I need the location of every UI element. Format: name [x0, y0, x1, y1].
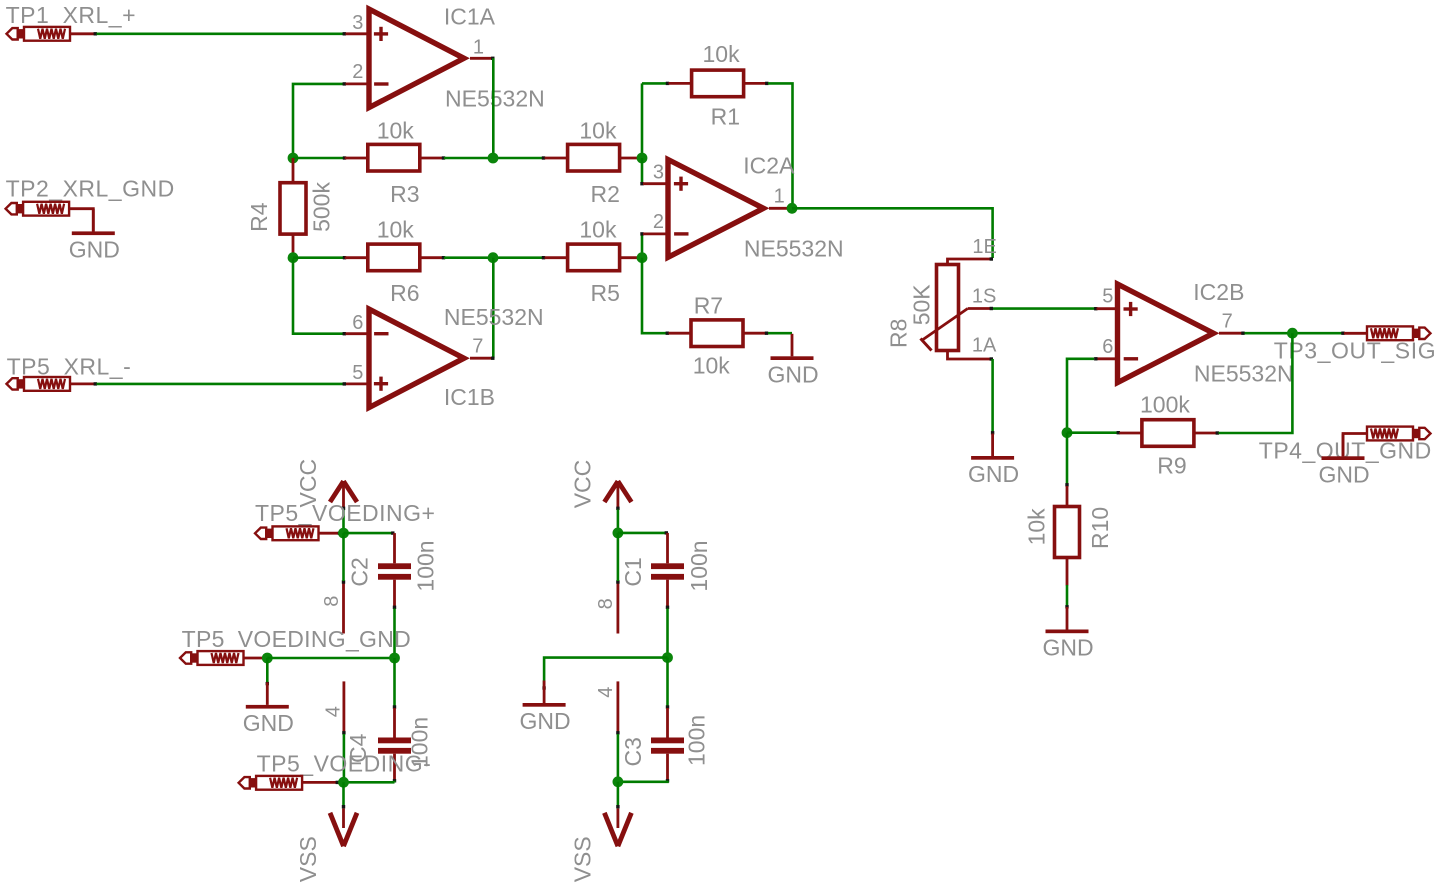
test pin TP5 VOEDING GND: [180, 651, 263, 665]
pin end tick IC1B pin 7: [491, 357, 494, 360]
test pin TP5 VOEDING+: [255, 526, 338, 540]
junction VCC left: [338, 528, 349, 539]
pin end tick IC2A pin 2: [640, 232, 643, 235]
value label R4 500k: [309, 182, 335, 232]
svg-text:TP5_VOEDING+: TP5_VOEDING+: [255, 500, 435, 526]
wire bottom row left group: [339, 781, 395, 784]
pin end tick R7 right: [765, 332, 768, 335]
wire R7 to ground: [768, 332, 792, 335]
svg-text:C1: C1: [620, 557, 646, 586]
resistor R9: [1119, 420, 1216, 447]
value label NE5532N (IC2B): [1194, 361, 1294, 387]
pin end tick C1 top: [665, 531, 668, 534]
svg-text:10k: 10k: [703, 41, 741, 67]
test pin TP2: [6, 202, 94, 232]
wire junction to VSS mid: [617, 782, 620, 806]
value label C4 100n: [407, 717, 433, 768]
svg-text:GND: GND: [1318, 461, 1369, 487]
wire pin 4 to bottom row left: [343, 734, 346, 782]
pin end tick IC1B pin 6: [343, 332, 346, 335]
value label R1 10k: [703, 41, 741, 67]
wire R8 wiper to IC2B pin 5: [993, 307, 1095, 310]
pin end tick IC2B pin 6: [1094, 357, 1097, 360]
pin 2 label IC2A: [653, 211, 664, 233]
name label C3: [620, 737, 646, 766]
op-amp IC2A: [643, 160, 791, 258]
junction VCC mid: [613, 528, 624, 539]
svg-text:7: 7: [472, 336, 483, 358]
svg-text:C3: C3: [620, 737, 646, 766]
wire IC1A pin 2 net: [293, 84, 344, 157]
resistor R4: [280, 158, 306, 258]
test pin TP4: [1343, 427, 1431, 457]
junction IC2A pin 3 node: [637, 153, 648, 164]
value label NE5532N (IC1A): [445, 86, 545, 112]
pin end tick pin 4 left: [342, 731, 345, 734]
pin end tick TP1: [94, 32, 97, 35]
pin end tick VCC left: [342, 507, 345, 510]
name label R9: [1157, 453, 1186, 479]
wire IC1A output down: [492, 58, 495, 158]
svg-text:10k: 10k: [579, 217, 617, 243]
pin end tick R1 right: [765, 82, 768, 85]
resistor R3: [345, 144, 443, 171]
pin 1 label IC2A: [774, 186, 785, 208]
pin end tick ground left: [266, 682, 269, 685]
junction row A left: [288, 153, 299, 164]
wire R9 right up to output: [1219, 333, 1293, 433]
svg-text:GND: GND: [69, 236, 120, 262]
pin end tick C3 bottom: [666, 779, 669, 782]
test pin TP5 VOEDING-: [239, 776, 337, 790]
pin end tick R7 left: [666, 332, 669, 335]
svg-text:5: 5: [352, 362, 363, 384]
value label NE5532N (IC1B): [444, 304, 544, 330]
pin end tick R9 right: [1216, 431, 1219, 434]
pin end tick IC2B pin 7: [1241, 332, 1244, 335]
pin end tick R10 top: [1065, 483, 1068, 486]
svg-text:GND: GND: [767, 361, 818, 387]
wire TP5 to IC1B pin 5: [97, 383, 345, 386]
wire IC2B output: [1245, 332, 1343, 335]
name label VSS mid: [569, 836, 595, 882]
net label TP4_OUT_GND: [1259, 438, 1432, 464]
name label R4: [246, 202, 272, 232]
pin end tick IC1A pin 2: [343, 82, 346, 85]
svg-text:GND: GND: [968, 461, 1019, 487]
wire R10 to ground: [1066, 585, 1069, 606]
svg-text:10k: 10k: [377, 217, 415, 243]
power symbol VSS mid: [604, 809, 631, 847]
power pin 8 left: [342, 584, 345, 634]
svg-text:VSS: VSS: [569, 836, 595, 882]
junction mid row jack left: [262, 653, 273, 664]
name label R10: [1087, 507, 1113, 549]
pin end tick R8 1A: [990, 357, 993, 360]
wire R1 right to IC2A output: [768, 83, 793, 207]
name label R6: [390, 280, 419, 306]
pin 6 label IC1B: [352, 312, 363, 334]
pin end tick TP5 VOEDING-: [336, 781, 339, 784]
capacitor C1: [651, 533, 684, 606]
wire row B left: [293, 256, 344, 259]
pin 8 label left: [321, 596, 343, 607]
wire IC1B pin 6 net: [293, 259, 344, 334]
resistor R10: [1055, 486, 1080, 586]
svg-text:VSS: VSS: [295, 836, 321, 882]
wire junction to VSS left: [342, 782, 345, 806]
junction bottom row mid: [613, 776, 624, 787]
svg-text:TP5_XRL_-: TP5_XRL_-: [7, 354, 132, 380]
pin end tick IC1B pin 5: [343, 382, 346, 385]
svg-text:IC2B: IC2B: [1193, 279, 1244, 305]
wire C2 to mid row left: [393, 609, 396, 659]
power pin 4 mid: [617, 681, 620, 732]
wire C1 to mid row: [666, 609, 669, 658]
svg-text:1E: 1E: [972, 236, 996, 258]
wire R8 1A to ground: [991, 359, 994, 433]
name label R7: [694, 293, 723, 319]
svg-text:100n: 100n: [686, 540, 712, 591]
pin end tick VSS mid: [616, 805, 619, 808]
svg-text:6: 6: [1102, 336, 1113, 358]
svg-text:R3: R3: [390, 181, 419, 207]
pin 7 label IC1B: [472, 336, 483, 358]
pin end tick TP3: [1341, 332, 1344, 335]
wire R3 to R2: [444, 157, 543, 160]
svg-text:2: 2: [352, 61, 363, 83]
wire mid row to ground mid: [544, 658, 667, 688]
name label R1: [711, 104, 740, 130]
wire VCC junction to pin 8 mid: [617, 533, 620, 581]
svg-text:1: 1: [774, 186, 785, 208]
value label R10 10k: [1024, 508, 1050, 546]
svg-text:R7: R7: [694, 293, 723, 319]
value label C2 100n: [413, 540, 439, 591]
svg-text:C2: C2: [347, 557, 373, 586]
pin end tick R8 ground: [991, 431, 994, 434]
op-amp IC1B: [346, 309, 493, 408]
name label R5: [591, 280, 620, 306]
svg-text:R5: R5: [591, 280, 620, 306]
junction mid row mid group: [662, 652, 673, 663]
value label R5 10k: [579, 217, 617, 243]
power symbol VCC mid: [604, 481, 631, 507]
svg-text:1: 1: [473, 36, 484, 58]
value label C1 100n: [686, 540, 712, 591]
ground symbol R10: [1042, 607, 1093, 661]
net label TP5_XRL_-: [7, 354, 132, 380]
junction mid row cap left: [389, 653, 400, 664]
resistor R2: [545, 144, 641, 171]
pin 4 label mid: [595, 687, 617, 698]
svg-text:GND: GND: [243, 710, 294, 736]
svg-text:10k: 10k: [377, 117, 415, 143]
svg-text:R9: R9: [1157, 453, 1186, 479]
name label R3: [390, 181, 419, 207]
net label TP5_VOEDING_GND: [182, 626, 411, 652]
junction row B left: [288, 252, 299, 263]
power symbol VCC left: [330, 481, 357, 507]
wire junction to C2: [344, 532, 393, 535]
pin end tick ground mid: [542, 686, 545, 689]
wire R1 branch down: [641, 83, 644, 158]
value label NE5532N (IC2A): [744, 236, 844, 262]
pin end tick C2 bottom: [393, 606, 396, 609]
wire R9 left: [1067, 431, 1118, 434]
svg-text:VCC: VCC: [569, 460, 595, 509]
wire C4 corner: [393, 781, 396, 783]
svg-text:10k: 10k: [693, 353, 731, 379]
wire mid row left group: [267, 657, 394, 660]
pin end tick IC1A pin 1: [491, 57, 494, 60]
svg-text:100n: 100n: [684, 715, 710, 766]
svg-text:IC1A: IC1A: [444, 3, 496, 29]
wire node to IC2A pin 2: [641, 234, 644, 258]
name label IC1B: [444, 384, 495, 410]
pin end tick pin 8 mid: [616, 580, 619, 583]
capacitor C3: [651, 708, 684, 780]
svg-text:GND: GND: [520, 708, 571, 734]
svg-text:8: 8: [321, 596, 343, 607]
svg-text:R2: R2: [591, 181, 620, 207]
svg-text:NE5532N: NE5532N: [444, 304, 544, 330]
wire R6 to R5: [444, 256, 543, 259]
wire IC2B pin 6 to R9 node: [1067, 359, 1094, 433]
pin end tick IC1A pin 3: [343, 32, 346, 35]
svg-text:NE5532N: NE5532N: [445, 86, 545, 112]
pin end tick R9 left: [1117, 431, 1120, 434]
pin 8 label mid: [595, 598, 617, 609]
pin 3 label IC1A: [352, 12, 363, 34]
pin end tick C3 top: [666, 705, 669, 708]
name label IC1A: [444, 3, 496, 29]
svg-text:100n: 100n: [413, 540, 439, 591]
net label TP1_XRL_+: [6, 2, 136, 28]
wire mid row to C3: [666, 658, 669, 707]
pin end tick TP5 VOEDING+: [338, 532, 341, 535]
wire junction to C1: [618, 532, 666, 535]
name label IC2B: [1193, 279, 1244, 305]
pin end tick C2 top: [391, 531, 394, 534]
wire R9 node down: [1066, 433, 1069, 484]
junction row B mid: [488, 252, 499, 263]
junction IC2A output: [787, 203, 798, 214]
ground symbol TP4: [1318, 434, 1369, 488]
pin end tick R2 left: [542, 156, 545, 159]
svg-text:TP3_OUT_SIG: TP3_OUT_SIG: [1274, 338, 1437, 364]
value label C3 100n: [684, 715, 710, 766]
pin end tick R1 left: [666, 82, 669, 85]
value label R3 10k: [377, 117, 415, 143]
pin 2 label IC1A: [352, 61, 363, 83]
svg-text:TP1_XRL_+: TP1_XRL_+: [6, 2, 136, 28]
svg-text:5: 5: [1102, 286, 1113, 308]
wire row A left: [293, 157, 344, 160]
name label R2: [591, 181, 620, 207]
svg-text:TP2_XRL_GND: TP2_XRL_GND: [6, 176, 175, 202]
wire row B mid to IC1B pin 7: [492, 258, 495, 359]
svg-text:1A: 1A: [972, 334, 997, 356]
value label R7 10k: [693, 353, 731, 379]
power pin 8 mid: [617, 584, 620, 634]
svg-text:7: 7: [1222, 311, 1233, 333]
pin 1E label: [972, 236, 996, 258]
name label C1: [620, 557, 646, 586]
wire R1 left: [642, 82, 667, 85]
potentiometer R8: [921, 259, 991, 359]
pin 7 label IC2B: [1222, 311, 1233, 333]
resistor R1: [669, 70, 767, 97]
svg-text:500k: 500k: [309, 182, 335, 232]
svg-text:R4: R4: [246, 202, 272, 232]
pin end tick IC2A pin 1: [789, 207, 792, 210]
net label TP5_VOEDING+: [255, 500, 435, 526]
pin 4 label left: [323, 706, 345, 717]
ground symbol R8: [968, 434, 1019, 488]
value label R6 10k: [377, 217, 415, 243]
test pin TP1: [7, 27, 95, 41]
svg-text:GND: GND: [1042, 635, 1093, 661]
wire node to IC2A pin 3: [641, 158, 644, 184]
pin end tick R3 left: [343, 156, 346, 159]
svg-text:NE5532N: NE5532N: [1194, 361, 1294, 387]
name label VCC left: [295, 459, 321, 508]
name label VCC mid: [569, 460, 595, 509]
resistor R5: [545, 244, 641, 271]
wire VCC to junction mid: [617, 510, 620, 534]
pin 5 label IC2B: [1102, 286, 1113, 308]
pin end tick R6 right: [442, 256, 445, 259]
pin end tick C1 bottom: [666, 606, 669, 609]
svg-text:6: 6: [352, 312, 363, 334]
svg-text:TP5_VOEDING-: TP5_VOEDING-: [257, 751, 432, 777]
svg-text:10k: 10k: [579, 117, 617, 143]
wire pin 2 node to R7: [642, 258, 666, 334]
pin 1A label: [972, 334, 997, 356]
pin end tick pin 8 left: [342, 580, 345, 583]
pin end tick C4 top: [393, 705, 396, 708]
wire VCC junction to pin 8 left: [342, 533, 345, 581]
pin end tick R8 1S: [990, 307, 993, 310]
svg-text:8: 8: [595, 598, 617, 609]
wire IC2A output to R8: [792, 208, 993, 258]
wire VCC to junction left: [342, 510, 345, 534]
junction row A mid: [488, 153, 499, 164]
wire pin 4 to bottom row mid: [617, 734, 620, 782]
ground symbol TP5 group: [243, 682, 294, 736]
svg-text:50K: 50K: [909, 284, 935, 326]
pin end tick TP5 XRL-: [94, 382, 97, 385]
svg-text:1S: 1S: [972, 286, 996, 308]
pin end tick R5 left: [542, 256, 545, 259]
value label R8 50K: [909, 284, 935, 326]
svg-text:IC1B: IC1B: [444, 384, 495, 410]
pin end tick IC2B pin 5: [1094, 307, 1097, 310]
svg-text:TP5_VOEDING_GND: TP5_VOEDING_GND: [182, 626, 411, 652]
ground symbol TP2: [69, 209, 120, 263]
svg-text:IC2A: IC2A: [743, 153, 795, 179]
pin end tick R6 left: [343, 256, 346, 259]
name label C2: [347, 557, 373, 586]
test pin TP3: [1344, 326, 1431, 340]
pin 6 label IC2B: [1102, 336, 1113, 358]
wire mid row to C4: [393, 658, 396, 706]
power pin 4 left: [342, 681, 345, 732]
pin 3 label IC2A: [653, 161, 664, 183]
svg-text:3: 3: [352, 12, 363, 34]
junction IC2B output: [1287, 328, 1298, 339]
svg-text:100k: 100k: [1140, 392, 1190, 418]
capacitor C4: [378, 708, 411, 780]
svg-text:4: 4: [595, 687, 617, 698]
pin 5 label IC1B: [352, 362, 363, 384]
svg-text:2: 2: [653, 211, 664, 233]
capacitor C2: [378, 533, 411, 606]
pin end tick VSS left: [342, 805, 345, 808]
net label TP5_VOEDING-: [257, 751, 432, 777]
resistor R7: [669, 320, 767, 347]
op-amp IC2B: [1097, 284, 1242, 383]
power symbol VSS left: [330, 809, 357, 847]
pin end tick pin 4 mid: [616, 731, 619, 734]
pin end tick IC2A pin 3: [640, 182, 643, 185]
junction R9 node: [1062, 427, 1073, 438]
pin end tick VCC mid: [616, 507, 619, 510]
svg-text:R1: R1: [711, 104, 740, 130]
svg-text:R10: R10: [1087, 507, 1113, 549]
wire bottom row mid group: [618, 781, 668, 782]
resistor R6: [345, 244, 443, 271]
name label C4: [345, 733, 371, 763]
name label VSS left: [295, 836, 321, 882]
svg-text:4: 4: [323, 706, 345, 717]
name label IC2A: [743, 153, 795, 179]
value label R2 10k: [579, 117, 617, 143]
pin 1S label: [972, 286, 996, 308]
svg-text:NE5532N: NE5532N: [744, 236, 844, 262]
value label R9 100k: [1140, 392, 1190, 418]
junction bottom row left: [338, 777, 349, 788]
pin end tick R3 right: [442, 156, 445, 159]
junction IC2A pin 2 node: [637, 252, 648, 263]
svg-text:3: 3: [653, 161, 664, 183]
pin 1 label IC1A: [473, 36, 484, 58]
net label TP2_XRL_GND: [6, 176, 175, 202]
svg-text:R6: R6: [390, 280, 419, 306]
wire TP1 to IC1A pin 3: [97, 32, 345, 35]
pin end tick TP5 VOEDING GND: [262, 656, 265, 659]
pin end tick C4 bottom: [393, 779, 396, 782]
test pin TP5 XRL-: [7, 377, 95, 391]
name label R8: [886, 319, 912, 348]
svg-text:10k: 10k: [1024, 508, 1050, 546]
pin end tick R10 bottom: [1065, 605, 1068, 608]
wire jack junction to ground left: [266, 658, 269, 683]
ground symbol R7: [767, 334, 818, 388]
ground symbol mid group: [520, 681, 571, 735]
op-amp IC1A: [346, 9, 493, 108]
pin end tick R8 1E: [990, 257, 993, 260]
net label TP3_OUT_SIG: [1274, 338, 1437, 364]
